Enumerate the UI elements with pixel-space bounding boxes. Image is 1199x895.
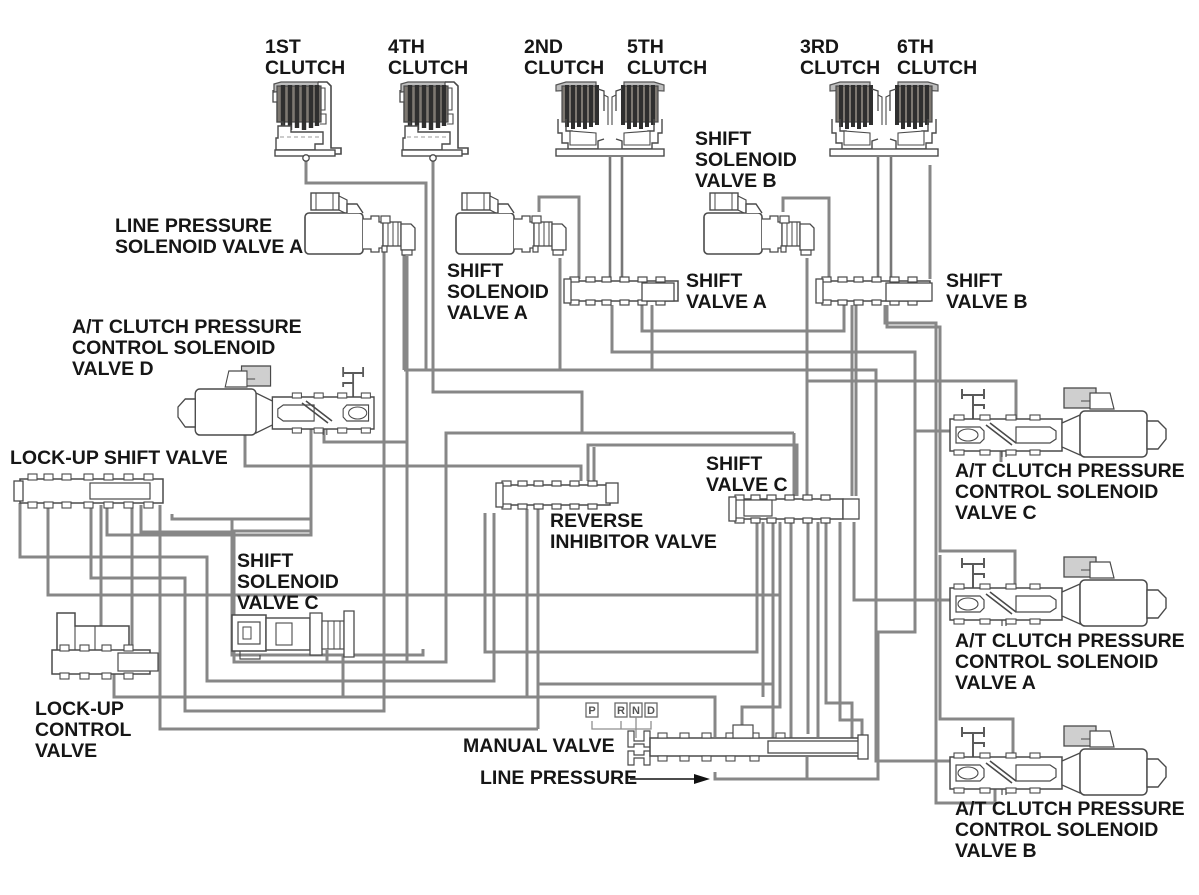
svg-text:CONTROL: CONTROL	[35, 719, 131, 741]
svg-text:CONTROL SOLENOID: CONTROL SOLENOID	[72, 337, 275, 359]
svg-text:3RD: 3RD	[800, 36, 839, 58]
svg-text:VALVE C: VALVE C	[237, 592, 319, 614]
svg-text:VALVE B: VALVE B	[946, 291, 1028, 313]
svg-text:A/T CLUTCH PRESSURE: A/T CLUTCH PRESSURE	[955, 460, 1185, 482]
svg-text:R: R	[617, 705, 625, 717]
svg-text:CLUTCH: CLUTCH	[897, 57, 977, 79]
svg-text:A/T CLUTCH PRESSURE: A/T CLUTCH PRESSURE	[955, 798, 1185, 820]
svg-text:VALVE B: VALVE B	[955, 840, 1037, 862]
svg-text:2ND: 2ND	[524, 36, 563, 58]
svg-text:VALVE D: VALVE D	[72, 358, 154, 380]
svg-text:VALVE B: VALVE B	[695, 170, 777, 192]
svg-text:SHIFT: SHIFT	[706, 453, 762, 475]
svg-text:LOCK-UP: LOCK-UP	[35, 698, 124, 720]
svg-text:SOLENOID VALVE A: SOLENOID VALVE A	[115, 236, 303, 258]
svg-text:INHIBITOR VALVE: INHIBITOR VALVE	[550, 531, 717, 553]
svg-text:A/T CLUTCH PRESSURE: A/T CLUTCH PRESSURE	[72, 316, 302, 338]
svg-text:CLUTCH: CLUTCH	[627, 57, 707, 79]
svg-text:6TH: 6TH	[897, 36, 934, 58]
svg-text:SHIFT: SHIFT	[686, 270, 742, 292]
svg-text:MANUAL VALVE: MANUAL VALVE	[463, 735, 615, 757]
svg-text:VALVE C: VALVE C	[706, 474, 788, 496]
svg-text:CLUTCH: CLUTCH	[524, 57, 604, 79]
svg-text:SOLENOID: SOLENOID	[237, 571, 339, 593]
svg-text:SOLENOID: SOLENOID	[447, 281, 549, 303]
svg-text:LINE PRESSURE: LINE PRESSURE	[480, 767, 637, 789]
svg-text:LOCK-UP SHIFT VALVE: LOCK-UP SHIFT VALVE	[10, 447, 228, 469]
svg-text:4TH: 4TH	[388, 36, 425, 58]
svg-text:SOLENOID: SOLENOID	[695, 149, 797, 171]
svg-text:VALVE: VALVE	[35, 740, 97, 762]
svg-text:VALVE C: VALVE C	[955, 502, 1037, 524]
svg-text:CONTROL SOLENOID: CONTROL SOLENOID	[955, 819, 1158, 841]
svg-text:REVERSE: REVERSE	[550, 510, 643, 532]
svg-text:VALVE A: VALVE A	[686, 291, 767, 313]
svg-text:SHIFT: SHIFT	[946, 270, 1002, 292]
svg-text:D: D	[647, 705, 655, 717]
svg-text:CONTROL SOLENOID: CONTROL SOLENOID	[955, 481, 1158, 503]
svg-text:N: N	[632, 705, 640, 717]
svg-text:CLUTCH: CLUTCH	[800, 57, 880, 79]
svg-text:CLUTCH: CLUTCH	[388, 57, 468, 79]
svg-text:A/T CLUTCH PRESSURE: A/T CLUTCH PRESSURE	[955, 630, 1185, 652]
svg-text:P: P	[588, 705, 595, 717]
svg-text:SHIFT: SHIFT	[695, 128, 751, 150]
svg-text:CLUTCH: CLUTCH	[265, 57, 345, 79]
svg-text:CONTROL SOLENOID: CONTROL SOLENOID	[955, 651, 1158, 673]
svg-text:SHIFT: SHIFT	[237, 550, 293, 572]
svg-text:5TH: 5TH	[627, 36, 664, 58]
svg-text:LINE PRESSURE: LINE PRESSURE	[115, 215, 272, 237]
svg-text:SHIFT: SHIFT	[447, 260, 503, 282]
svg-text:VALVE A: VALVE A	[955, 672, 1036, 694]
svg-text:VALVE A: VALVE A	[447, 302, 528, 324]
svg-text:1ST: 1ST	[265, 36, 301, 58]
